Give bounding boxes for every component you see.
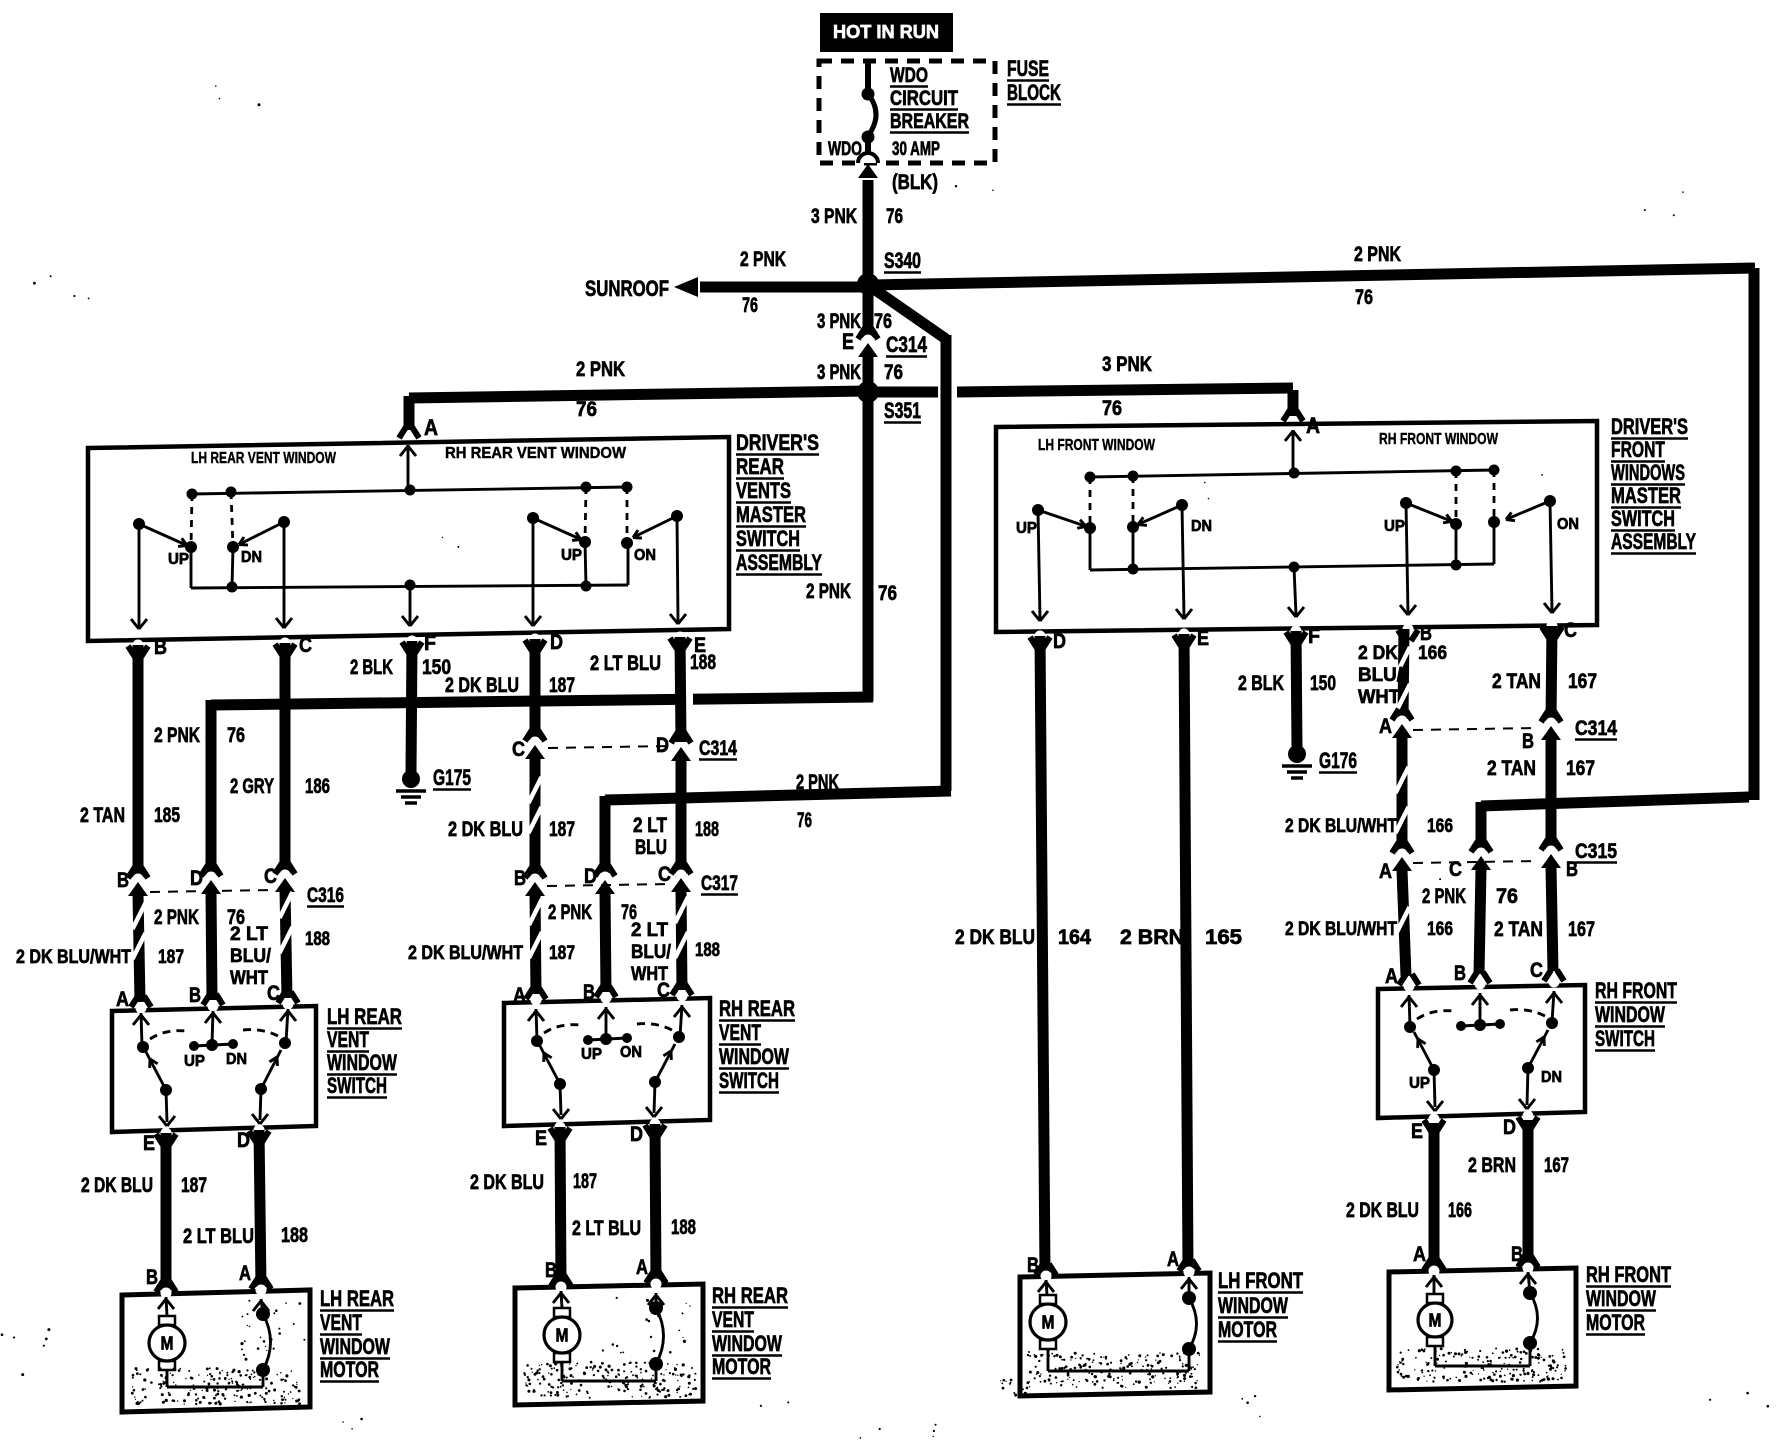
RH rear vent window switch box [504, 998, 710, 1126]
wire C 2 TAN 167 (C315 to RH front switch) [1551, 867, 1553, 971]
svg-text:2 BLK: 2 BLK [350, 656, 393, 679]
driver's front windows master switch assembly box [996, 421, 1597, 632]
wire B 2 PNK 76 (C317 to RH rear switch) [605, 891, 606, 992]
wire B 2 DK BLU/WHT 166 (to C314) [1403, 629, 1404, 719]
pin E LH rear switch [156, 1134, 163, 1145]
svg-text:WDO: WDO [890, 64, 928, 87]
svg-text:B: B [1522, 730, 1534, 753]
svg-text:B: B [1027, 1254, 1039, 1277]
pin B LH rear motor [156, 1281, 163, 1292]
svg-text:LH REAR: LH REAR [320, 1286, 394, 1311]
svg-text:167: 167 [1544, 1154, 1569, 1177]
wire C 2 LT BLU/WHT 188 (C317 to RH rear switch) [681, 889, 682, 990]
wire S340 to connector C314 cavity E [863, 290, 874, 338]
svg-text:BREAKER: BREAKER [890, 110, 969, 133]
pin E RH front switch [1424, 1120, 1431, 1131]
pin F wire (inside left master) [409, 585, 412, 624]
svg-text:C314: C314 [1575, 717, 1617, 740]
fuse block dashed boundary [819, 61, 995, 163]
svg-text:2 DK BLU: 2 DK BLU [445, 674, 519, 697]
svg-text:2 DK: 2 DK [1358, 642, 1398, 664]
wire 2 PNK 76 bus from diagonal to C317 [605, 791, 951, 800]
svg-text:CIRCUIT: CIRCUIT [890, 87, 958, 110]
svg-text:167: 167 [1568, 918, 1595, 941]
left master internal supply line [192, 487, 627, 494]
svg-text:B: B [514, 867, 526, 890]
svg-text:2 LT BLU: 2 LT BLU [572, 1217, 641, 1240]
scan noise RH front motor [1396, 1347, 1567, 1383]
svg-text:C: C [658, 863, 671, 886]
svg-text:B: B [117, 869, 129, 892]
svg-text:VENT: VENT [719, 1020, 761, 1045]
wire C 2 TAN 167 (to C314) [1551, 626, 1552, 721]
svg-text:A: A [1413, 1243, 1426, 1266]
pin B RH rear switch [596, 986, 603, 997]
svg-text:BLU: BLU [635, 836, 667, 859]
svg-text:M: M [161, 1334, 174, 1354]
svg-text:C: C [299, 634, 312, 657]
svg-text:186: 186 [305, 775, 330, 798]
svg-text:F: F [424, 632, 436, 655]
svg-text:2 PNK: 2 PNK [154, 906, 199, 929]
svg-text:WINDOW: WINDOW [712, 1331, 783, 1356]
ground G176 [1288, 745, 1306, 763]
svg-text:D: D [550, 631, 563, 654]
wire C 2 GRY 186 [280, 643, 291, 875]
svg-text:2 GRY: 2 GRY [230, 775, 274, 798]
svg-text:2 PNK: 2 PNK [796, 771, 839, 794]
LH front switch contacts (master) [1032, 504, 1044, 516]
wire E 2 DK BLU 166 (RH front switch to motor) [1429, 1123, 1440, 1269]
wire B 2 PNK 76 (C316 to LH rear switch) [211, 892, 212, 1000]
svg-text:166: 166 [1427, 815, 1453, 837]
svg-text:RH REAR: RH REAR [719, 996, 795, 1021]
svg-text:ASSEMBLY: ASSEMBLY [1611, 529, 1696, 554]
svg-text:2 PNK: 2 PNK [806, 580, 851, 603]
svg-text:76: 76 [227, 724, 245, 747]
svg-text:VENT: VENT [327, 1027, 369, 1052]
svg-text:MASTER: MASTER [1611, 483, 1681, 508]
right master internal supply line [1090, 470, 1494, 477]
svg-text:187: 187 [573, 1170, 597, 1193]
svg-text:ON: ON [620, 1044, 642, 1061]
pin D wire (inside left master) [532, 518, 535, 624]
wire F 2 BLK 150 to ground [1296, 631, 1297, 747]
svg-text:A: A [636, 1256, 648, 1279]
svg-text:76: 76 [1355, 286, 1373, 309]
svg-text:2 PNK: 2 PNK [740, 248, 786, 271]
svg-text:DRIVER'S: DRIVER'S [736, 430, 819, 455]
wire E 2 LT BLU 188 (C314 to C317) [676, 760, 687, 877]
svg-text:2 LT: 2 LT [230, 923, 268, 945]
svg-text:UP: UP [581, 1046, 602, 1063]
wire 2 PNK 76 bus from S351 to C316 [863, 398, 874, 701]
svg-text:2 DK BLU/WHT: 2 DK BLU/WHT [1285, 815, 1397, 837]
svg-text:B: B [1511, 1243, 1523, 1266]
svg-text:C: C [512, 738, 525, 761]
svg-text:188: 188 [281, 1224, 308, 1247]
svg-text:2 DK BLU: 2 DK BLU [1346, 1199, 1419, 1222]
wire to sunroof 2 PNK 76 [700, 282, 862, 293]
svg-text:188: 188 [671, 1216, 696, 1239]
motor M RH front window [1433, 1275, 1436, 1293]
pin D RH front switch [1518, 1117, 1525, 1128]
svg-text:BLU/: BLU/ [631, 941, 671, 963]
svg-text:187: 187 [158, 946, 184, 968]
svg-text:RH REAR VENT WINDOW: RH REAR VENT WINDOW [445, 445, 626, 462]
svg-text:DN: DN [241, 549, 262, 566]
svg-text:187: 187 [181, 1174, 207, 1197]
connector C315 label [1413, 861, 1537, 863]
svg-text:2 DK BLU/WHT: 2 DK BLU/WHT [408, 942, 523, 964]
pin A RH rear motor [646, 1272, 653, 1283]
RH rear vent window motor box [515, 1284, 703, 1405]
motor M LH front window [1046, 1280, 1047, 1295]
svg-text:76: 76 [742, 294, 758, 317]
wire S340 to right edge 2 PNK [872, 268, 1755, 285]
wire breaker to S340 (3 PNK 76) [863, 180, 874, 286]
svg-text:G176: G176 [1319, 748, 1357, 773]
svg-text:76: 76 [576, 398, 597, 421]
scan specks (page noise) [215, 85, 261, 106]
svg-text:E: E [143, 1132, 155, 1155]
splice S340 [857, 273, 879, 295]
LH front window motor box [1020, 1273, 1210, 1396]
pin B RH front switch [1470, 972, 1477, 983]
svg-text:WINDOW: WINDOW [327, 1050, 398, 1075]
svg-text:A: A [1379, 860, 1392, 883]
pin F left master [402, 642, 409, 653]
svg-text:167: 167 [1566, 757, 1595, 780]
svg-text:E: E [842, 329, 854, 354]
svg-text:167: 167 [1568, 670, 1597, 693]
svg-text:UP: UP [1016, 520, 1037, 537]
scan noise LH rear motor [131, 1367, 301, 1405]
LH rear motor limit contacts [261, 1299, 263, 1314]
svg-text:A: A [239, 1262, 251, 1285]
svg-text:188: 188 [695, 939, 720, 961]
svg-text:76: 76 [878, 582, 897, 605]
wire E 2 BRN 165 (to LH front motor) [1184, 634, 1188, 1270]
wire A 2 DK BLU/WHT 187 (C317 to RH rear switch) [535, 893, 536, 994]
svg-text:2 DK BLU: 2 DK BLU [448, 818, 523, 841]
pin C left master [275, 644, 282, 655]
svg-text:ON: ON [634, 547, 656, 564]
RH front motor limit contacts [1528, 1272, 1530, 1293]
RH front switch contacts (master) [1400, 497, 1412, 509]
svg-text:A: A [1167, 1248, 1179, 1271]
svg-text:FUSE: FUSE [1007, 56, 1049, 81]
svg-text:C: C [1564, 619, 1577, 642]
svg-text:SWITCH: SWITCH [736, 526, 800, 551]
svg-text:166: 166 [1448, 1199, 1472, 1222]
svg-text:164: 164 [1058, 926, 1091, 949]
motor M RH rear vent [561, 1291, 562, 1308]
RH front switch wipers [1428, 1064, 1440, 1076]
svg-text:C: C [264, 865, 277, 888]
svg-text:LH FRONT: LH FRONT [1218, 1268, 1303, 1293]
pin B wire (inside left master) [138, 524, 141, 627]
pin E right master [1174, 635, 1181, 646]
motor M LH rear vent [166, 1297, 167, 1316]
wire E 2 DK BLU 187 (RH rear switch to motor) [560, 1127, 561, 1286]
wire A 2 DK BLU/WHT 166 (C314 to C315) [1397, 737, 1408, 854]
svg-text:2 LT BLU: 2 LT BLU [183, 1225, 254, 1248]
svg-text:WINDOW: WINDOW [1218, 1293, 1289, 1318]
scan noise LH front motor [1027, 1351, 1200, 1389]
svg-text:187: 187 [549, 674, 575, 697]
svg-text:REAR: REAR [736, 454, 784, 479]
wire D 2 LT BLU 188 (RH rear switch to motor) [655, 1124, 656, 1283]
svg-text:B: B [583, 981, 595, 1004]
svg-text:SUNROOF: SUNROOF [585, 276, 669, 301]
svg-text:SWITCH: SWITCH [1595, 1026, 1655, 1051]
wire C 2 LT BLU/WHT 188 (C316 to LH rear switch) [285, 890, 287, 998]
svg-text:HOT IN RUN: HOT IN RUN [833, 22, 939, 42]
svg-text:LH REAR: LH REAR [327, 1004, 402, 1029]
connector C314 cavity D [671, 732, 678, 743]
driver's rear vents master switch assembly box [88, 437, 729, 641]
svg-text:RH FRONT: RH FRONT [1595, 978, 1677, 1003]
svg-text:166: 166 [1427, 918, 1453, 940]
svg-text:2 TAN: 2 TAN [1494, 918, 1543, 941]
LH rear vent window switch box [112, 1006, 316, 1132]
svg-text:B: B [189, 984, 201, 1007]
wire E 2 LT BLU 188 (to C314) [680, 637, 681, 742]
connector C317 cavity B [525, 867, 532, 878]
svg-text:S351: S351 [884, 398, 921, 423]
svg-text:VENT: VENT [320, 1310, 362, 1335]
svg-text:D: D [1053, 630, 1066, 653]
connector C317 label [547, 884, 669, 886]
svg-text:C317: C317 [701, 872, 738, 895]
svg-text:2 PNK: 2 PNK [548, 901, 592, 924]
svg-text:(BLK): (BLK) [892, 171, 938, 194]
svg-text:2 PNK: 2 PNK [576, 358, 625, 381]
wire A 2 DK BLU/WHT 187 (C316 to LH rear switch) [138, 894, 140, 1002]
svg-text:ON: ON [1557, 516, 1579, 533]
svg-text:BLU/: BLU/ [230, 945, 271, 967]
svg-text:D: D [630, 1123, 643, 1146]
svg-text:B: B [545, 1259, 557, 1282]
connector C314 right label [1413, 728, 1537, 730]
svg-text:SWITCH: SWITCH [719, 1068, 779, 1093]
pin F right master [1286, 632, 1293, 643]
pin D LH rear switch [249, 1131, 256, 1142]
svg-text:2 TAN: 2 TAN [1492, 670, 1541, 693]
svg-text:2 PNK: 2 PNK [1422, 885, 1466, 908]
LH rear switch wipers [160, 1084, 172, 1096]
svg-text:VENTS: VENTS [736, 478, 791, 503]
connector C314 mid label [548, 746, 672, 748]
svg-text:WINDOWS: WINDOWS [1611, 460, 1685, 485]
svg-text:MOTOR: MOTOR [1218, 1317, 1277, 1342]
pin E RH rear switch [550, 1128, 557, 1139]
RH front window motor box [1389, 1268, 1576, 1390]
svg-text:UP: UP [1384, 518, 1405, 535]
svg-text:187: 187 [549, 942, 575, 964]
connector C314 cavity E [858, 328, 865, 339]
connector C315 cavity B [1541, 839, 1548, 850]
svg-text:M: M [556, 1326, 569, 1346]
svg-text:2 DK BLU/WHT: 2 DK BLU/WHT [16, 946, 131, 968]
pin B wire (inside right master) [1406, 503, 1408, 613]
svg-text:LH REAR VENT WINDOW: LH REAR VENT WINDOW [191, 450, 336, 467]
wire B 2 PNK 76 (C315 to RH front switch) [1479, 869, 1481, 974]
svg-text:C: C [1530, 959, 1543, 982]
svg-text:185: 185 [154, 804, 180, 827]
svg-text:2 DK BLU: 2 DK BLU [81, 1174, 153, 1197]
pin F wire (inside right master) [1294, 567, 1296, 615]
pin D RH rear switch [645, 1125, 652, 1136]
pin B RH rear motor [551, 1275, 558, 1286]
pin C LH rear switch [278, 992, 285, 1003]
svg-text:BLU/: BLU/ [1358, 664, 1403, 686]
svg-text:MOTOR: MOTOR [1586, 1310, 1645, 1335]
svg-text:B: B [146, 1266, 158, 1289]
svg-text:WDO: WDO [828, 138, 862, 160]
svg-text:E: E [1411, 1120, 1423, 1143]
wire D 2 DK BLU 187 (to C314) [530, 639, 541, 740]
connector C314 cavity A [1392, 709, 1399, 720]
svg-text:WINDOW: WINDOW [1586, 1286, 1657, 1311]
svg-text:2 LT: 2 LT [633, 814, 667, 837]
pin A LH rear switch [131, 996, 138, 1007]
svg-text:BLOCK: BLOCK [1007, 80, 1061, 105]
svg-text:UP: UP [561, 547, 582, 564]
wire A 2 DK BLU/WHT 166 (C315 to RH front switch) [1402, 870, 1406, 976]
svg-text:2 PNK: 2 PNK [154, 724, 200, 747]
svg-text:RH FRONT WINDOW: RH FRONT WINDOW [1379, 431, 1498, 448]
pin B RH front motor [1518, 1256, 1525, 1267]
svg-text:30 AMP: 30 AMP [892, 138, 940, 160]
svg-text:2 TAN: 2 TAN [1487, 757, 1536, 780]
pin A RH front motor [1424, 1259, 1431, 1270]
svg-text:2 LT BLU: 2 LT BLU [590, 652, 661, 675]
svg-text:3 PNK: 3 PNK [811, 205, 857, 228]
wire D 2 LT BLU 188 (LH rear switch to motor) [259, 1130, 261, 1287]
pin D wire (inside right master) [1038, 510, 1040, 619]
svg-text:A: A [1385, 965, 1398, 988]
svg-text:UP: UP [168, 551, 189, 568]
svg-text:M: M [1042, 1313, 1055, 1333]
svg-text:2 BRN: 2 BRN [1120, 926, 1184, 949]
power label HOT IN RUN [820, 13, 953, 52]
pin C wire (inside right master) [1550, 501, 1552, 611]
connector C316 cavity D [201, 865, 208, 876]
svg-text:76: 76 [884, 361, 903, 384]
svg-text:UP: UP [184, 1053, 205, 1070]
connector C314 cavity B [1541, 711, 1548, 722]
svg-text:2 PNK: 2 PNK [1354, 243, 1401, 266]
connector C315 cavity C [1471, 841, 1478, 852]
wire 2 PNK bus right to C315 [1481, 797, 1749, 806]
RH rear vent switch contacts (master) [527, 512, 539, 524]
svg-text:RH REAR: RH REAR [712, 1283, 788, 1308]
svg-text:S340: S340 [884, 248, 921, 273]
svg-text:2 DK BLU: 2 DK BLU [955, 926, 1035, 949]
svg-text:WINDOW: WINDOW [320, 1334, 391, 1359]
pin E left master [670, 638, 677, 649]
LH rear switch contacts [137, 1041, 149, 1053]
pin B right master [1398, 630, 1405, 641]
LH rear vent window motor box [122, 1290, 310, 1412]
connector C315 cavity A [1392, 842, 1399, 853]
pin A left master switch [399, 427, 406, 438]
svg-text:M: M [1429, 1311, 1442, 1331]
wire S351 bus 2 PNK / 3 PNK to both master switches [409, 391, 867, 398]
svg-text:2 DK BLU: 2 DK BLU [470, 1171, 544, 1194]
svg-text:C: C [267, 982, 280, 1005]
pin B left master [128, 646, 135, 657]
svg-text:187: 187 [549, 818, 575, 841]
svg-text:DN: DN [1191, 518, 1212, 535]
svg-text:ASSEMBLY: ASSEMBLY [736, 550, 822, 575]
svg-text:A: A [424, 415, 438, 440]
svg-text:C315: C315 [1575, 840, 1617, 863]
svg-text:2 BRN: 2 BRN [1468, 1154, 1516, 1177]
svg-text:DN: DN [1541, 1069, 1562, 1086]
connector C317 cavity C [671, 863, 678, 874]
scan noise RH rear motor [523, 1361, 697, 1399]
pin B LH front motor [1036, 1264, 1043, 1275]
svg-text:B: B [154, 636, 167, 659]
pin C RH front switch [1544, 970, 1551, 981]
svg-text:WINDOW: WINDOW [719, 1044, 790, 1069]
connector C314 cavity C [525, 730, 532, 741]
RH rear switch wipers [554, 1078, 566, 1090]
pin D right master [1030, 637, 1037, 648]
svg-text:2 BLK: 2 BLK [1238, 672, 1284, 695]
wire E 2 DK BLU 187 (LH rear switch to motor) [161, 1133, 172, 1290]
wire B 2 TAN 167 (C314 to C315) [1546, 739, 1557, 851]
svg-text:76: 76 [1102, 397, 1122, 420]
connector C317 cavity D [595, 865, 602, 876]
svg-text:B: B [1454, 962, 1466, 985]
svg-text:D: D [237, 1129, 250, 1152]
svg-text:MASTER: MASTER [736, 502, 806, 527]
svg-text:RH FRONT: RH FRONT [1586, 1262, 1671, 1287]
svg-text:3 PNK: 3 PNK [817, 310, 861, 333]
svg-text:188: 188 [695, 818, 719, 841]
svg-text:165: 165 [1205, 926, 1242, 949]
splice S351 [857, 381, 879, 403]
LH front motor limit contacts [1188, 1277, 1191, 1298]
svg-text:A: A [116, 988, 129, 1011]
wire D 2 DK BLU 164 (to LH front motor) [1040, 636, 1045, 1274]
pin C wire (inside left master) [283, 522, 286, 626]
wire S340 diagonal 3 PNK down to front circuit [874, 289, 946, 339]
svg-text:UP: UP [1409, 1075, 1430, 1092]
right master bottom line [1090, 564, 1494, 570]
pin A RH rear switch [526, 988, 533, 999]
svg-text:3 PNK: 3 PNK [817, 361, 861, 384]
svg-text:76: 76 [1496, 885, 1518, 908]
connector C316 cavity C [275, 863, 282, 874]
connector C316 cavity B [128, 867, 135, 878]
RH front switch contacts [1404, 1021, 1416, 1033]
svg-text:DN: DN [226, 1051, 247, 1068]
svg-text:LH FRONT WINDOW: LH FRONT WINDOW [1038, 437, 1155, 454]
svg-text:76: 76 [797, 809, 812, 832]
svg-text:C: C [657, 979, 670, 1002]
svg-text:C316: C316 [307, 884, 344, 907]
svg-text:2 DK BLU/WHT: 2 DK BLU/WHT [1285, 918, 1397, 940]
svg-text:76: 76 [874, 310, 892, 333]
pin A RH front switch [1399, 974, 1406, 985]
svg-text:A: A [513, 984, 526, 1007]
pin B LH rear switch [203, 994, 210, 1005]
